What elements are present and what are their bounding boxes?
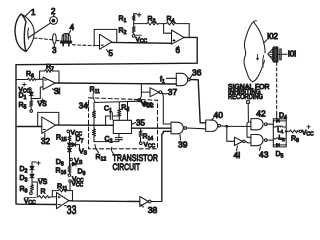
svg-text:l0l: l0l [288,50,296,59]
eye lens 1 [15,11,34,52]
svg-text:37: 37 [168,87,178,97]
svg-text:36: 36 [192,68,202,78]
op-amp 32 feedback box [38,112,59,126]
wire inverter 38 output up to gate 39 [162,131,171,201]
resistor R2 [132,24,135,35]
svg-text:CIRCUIT: CIRCUIT [113,162,141,173]
diode D4 [273,119,286,122]
wire amp31 lower input to reference [31,87,43,99]
wire rail to block 35 right [127,102,129,121]
resistor R [37,196,56,199]
svg-text:VCC: VCC [144,142,156,150]
resistor R6 [28,78,44,81]
svg-text:VCC: VCC [72,181,84,189]
branch down to inverter 37 [141,84,150,92]
resistor R8 [286,130,299,133]
svg-text:VS: VS [79,149,88,157]
VS terminal below R5 [30,110,33,113]
dashed optical axis [34,38,53,40]
capacitor C2 [94,134,122,142]
Vcc terminal below R14 [140,142,143,145]
resistor R5 [30,99,33,110]
resistor R11 feedback [52,189,72,201]
lens 3 [53,34,57,44]
NAND gate 40 [206,120,221,131]
Vcc terminal below R2 [132,35,135,38]
photodetector lamp 4 [61,33,72,45]
coil L2 [273,138,286,139]
wire inverter 37 output down to gate 39 [162,93,171,124]
wire gate42 to bridge [267,123,273,125]
wire R3R4 junction to amp6 input [164,24,172,34]
light source 2 [50,14,58,25]
svg-text:38: 38 [148,205,158,215]
plus supply terminal [134,14,137,20]
Vcc terminal op31 ref [29,88,32,91]
resistor R4 [164,22,190,25]
inverter 38 [140,197,151,208]
wire amp32 output to block 35 [56,124,114,126]
svg-text:VCC: VCC [142,102,154,110]
wire amp31 output to gate 36 [55,83,176,84]
plus terminal above D2 [32,162,36,166]
recording head 101 [268,47,281,63]
driver bridge rails [273,118,286,120]
resistor Rd [118,102,121,120]
op-amp 6 [172,30,185,44]
branch down to inverter 41 [227,126,235,141]
svg-text:RECORDING: RECORDING [228,94,263,101]
op-amp 5 [94,29,117,49]
resistor R11 (inside box, upper) [93,103,96,126]
svg-text:5: 5 [109,49,114,58]
svg-text:42: 42 [256,109,266,119]
NAND gate 43 [251,135,267,146]
resistor R16 [56,166,72,176]
resistor R1 [132,15,135,24]
svg-text:VCC: VCC [24,198,36,206]
Vcc terminal above R11 [69,180,71,182]
resistor R15 [56,133,71,166]
bus branch to op-amp 32 [16,126,42,128]
VS terminal (reference chain) [70,158,83,166]
diode D7 [68,136,88,157]
op-amp 33 [57,193,69,209]
signal node square [247,101,250,104]
svg-text:33: 33 [67,203,77,217]
Vcc terminal (reference chain bottom) [68,174,84,184]
wire gate39 output to gate 40 [187,127,206,130]
Vcc terminal below R9 [30,192,33,195]
top rail in transistor box [94,101,139,102]
wire inverter38 output up [151,201,162,203]
svg-text:40: 40 [214,110,224,120]
NAND gate 36 [176,73,190,85]
wire gate36 output down to gate 40 [190,80,206,123]
svg-text:35: 35 [136,119,145,128]
svg-text:VS: VS [38,179,48,186]
svg-text:R: R [41,189,46,196]
op-amp 32 [42,117,56,139]
svg-text:1: 1 [31,8,36,17]
svg-text:4l: 4l [234,150,241,160]
op-amp 31 [43,77,55,90]
resistor R14 [139,128,142,142]
wire gate40 output to gate 42 [220,125,251,128]
block 35 output wire [132,127,172,129]
diode D8 [56,148,72,167]
wire inverter 41 to gate 43 [245,141,251,143]
diode D5 [273,143,286,146]
ray eye to source 2 [29,23,51,37]
svg-text:32: 32 [41,137,50,146]
svg-text:3l: 3l [54,87,60,96]
diode D2 [30,166,34,174]
wire gate43 to bridge [267,139,273,141]
svg-text:43: 43 [259,150,269,160]
resistor R3 [147,22,164,25]
feedback wire R4 to amp6 output [188,24,190,38]
wire amp5 output to amp6 [112,41,172,44]
transistor block 35 [113,120,131,133]
svg-text:39: 39 [178,140,188,150]
svg-text:VCC: VCC [302,130,314,138]
wire D3 junction to comparator input [32,182,37,197]
wire node R1R2 to R3 [134,23,147,25]
resistor R9 [31,182,34,192]
diode D3 [30,174,34,182]
diode D9 [70,162,86,177]
wire amp6 output down and left (bus) [16,37,197,204]
resistor R7 feedback [40,70,59,83]
Vcc terminal (reference chain top) [67,130,82,138]
svg-text:l02: l02 [267,32,278,41]
NAND gate 42 [251,119,267,130]
Vcc terminal top right of box [139,99,142,102]
wire f1 to gate 36 [167,77,177,79]
Vcc terminal at inverter 37 input [140,92,142,99]
dashed wire head to driver [276,63,278,114]
diode D1 [29,90,33,98]
dashed box transistor circuit [89,98,158,149]
wire signal to gates 42 43 [248,103,251,122]
svg-text:2: 2 [51,7,56,16]
wire amp33 output to inverter 38 [69,200,140,203]
resistor R12 (inside box, lower) [93,125,96,141]
NAND gate 39 [171,122,187,134]
eye 102 [244,21,265,82]
dashed wire lamp to amp 5 [73,44,94,47]
bus branch to R6 [16,79,28,81]
inverter 37 [150,88,162,97]
svg-text:VCC: VCC [136,37,148,45]
coil L1 [273,126,286,127]
capacitor C1 [106,113,119,126]
inverter 41 [234,137,245,145]
